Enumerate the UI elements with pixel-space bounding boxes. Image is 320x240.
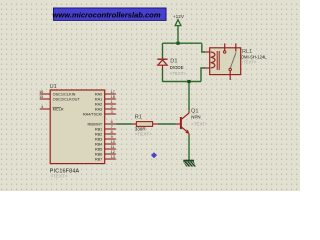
svg-text:11: 11 <box>111 145 115 149</box>
svg-text:MCLR: MCLR <box>53 107 64 111</box>
svg-text:Q1: Q1 <box>191 108 198 114</box>
svg-text:RA1: RA1 <box>95 97 102 101</box>
svg-text:<TEXT>: <TEXT> <box>241 60 257 65</box>
background grid <box>0 0 300 191</box>
svg-text:U1: U1 <box>50 84 57 90</box>
svg-text:8: 8 <box>111 130 113 134</box>
svg-text:RB0/INT: RB0/INT <box>88 122 103 126</box>
svg-text:RB6: RB6 <box>95 152 102 156</box>
pin 11 RB5 <box>95 145 116 152</box>
svg-text:RB4: RB4 <box>95 142 103 146</box>
pin 10 RB4 <box>95 140 116 147</box>
pin 8 RB2 <box>95 130 116 137</box>
svg-text:R1: R1 <box>135 114 142 120</box>
wire to relay coil top <box>202 43 205 52</box>
pin 7 RB1 <box>95 125 116 132</box>
bottom wire diode anode to relay branch <box>163 81 202 83</box>
svg-text:18: 18 <box>111 95 115 99</box>
pin 17 RA0 <box>95 90 116 97</box>
svg-text:RB7: RB7 <box>95 157 102 161</box>
transistor Q1 NPN <box>176 108 209 136</box>
svg-text:RB5: RB5 <box>95 147 102 151</box>
diode D1 <box>157 58 186 76</box>
svg-text:+12V: +12V <box>173 14 185 19</box>
svg-text:13: 13 <box>111 155 115 159</box>
title banner <box>52 8 166 20</box>
wire diode cathode up <box>162 43 164 59</box>
wire Q1 collector up to node <box>188 82 190 111</box>
pin 6 RB0/INT <box>88 120 116 127</box>
pin 13 RB7 <box>95 155 116 162</box>
svg-text:12: 12 <box>111 150 115 154</box>
svg-text:3: 3 <box>111 110 113 114</box>
relay RL1 OMI-SH-124L <box>205 43 268 80</box>
svg-text:<TEXT>: <TEXT> <box>135 131 152 136</box>
svg-text:2: 2 <box>111 105 113 109</box>
svg-text:DIODE: DIODE <box>170 65 184 70</box>
ground <box>183 161 196 167</box>
pin 3 RA4/T0CKI <box>83 110 116 117</box>
wire diode anode vertical <box>162 69 164 82</box>
svg-text:4: 4 <box>41 105 43 109</box>
pin 9 RB3 <box>95 135 116 142</box>
svg-text:NPN: NPN <box>191 115 200 120</box>
svg-text:RB3: RB3 <box>95 137 102 141</box>
svg-text:<TEXT>: <TEXT> <box>191 121 208 126</box>
svg-text:<TEXT>: <TEXT> <box>51 174 68 179</box>
wire R1 to Q1 base <box>158 123 176 125</box>
svg-text:RA3: RA3 <box>95 107 102 111</box>
svg-text:RA4/T0CKI: RA4/T0CKI <box>83 112 102 116</box>
pin 15 OSC2/CLKOUT <box>39 95 80 102</box>
pin 16 OSC1/CLKIN <box>39 90 76 97</box>
pin 4 MCLR <box>40 105 64 112</box>
svg-text:RB2: RB2 <box>95 132 102 136</box>
chip U1 PIC16F84A <box>50 84 105 179</box>
svg-text:OSC2/CLKOUT: OSC2/CLKOUT <box>53 97 81 101</box>
resistor R1 330R <box>132 114 158 136</box>
pin 18 RA1 <box>95 95 116 102</box>
svg-text:10: 10 <box>111 140 115 144</box>
power +12V <box>173 14 185 43</box>
pin 1 RA2 <box>95 100 116 107</box>
wire Q1 emitter down to ground <box>188 136 190 161</box>
svg-text:1: 1 <box>111 100 113 104</box>
svg-text:17: 17 <box>111 90 115 94</box>
node junction at collector <box>187 80 190 83</box>
pin 12 RB6 <box>95 150 116 157</box>
svg-text:16: 16 <box>39 90 43 94</box>
svg-text:9: 9 <box>111 135 113 139</box>
svg-text:D1: D1 <box>170 58 177 64</box>
node junction at +12V <box>176 42 179 45</box>
svg-text:7: 7 <box>111 125 113 129</box>
top wire +12V rail <box>163 42 202 44</box>
origin marker <box>151 152 157 158</box>
pin 2 RA3 <box>95 105 116 112</box>
svg-text:RA2: RA2 <box>95 102 102 106</box>
svg-text:www.microcontrollerslab.com: www.microcontrollerslab.com <box>52 10 160 19</box>
svg-text:15: 15 <box>39 95 43 99</box>
svg-text:OSC1/CLKIN: OSC1/CLKIN <box>53 92 76 96</box>
wire RB0 to R1 <box>116 123 132 125</box>
svg-text:6: 6 <box>111 120 113 124</box>
svg-text:RA0: RA0 <box>95 92 102 96</box>
svg-text:<TEXT>: <TEXT> <box>170 71 187 76</box>
svg-text:RB1: RB1 <box>95 127 102 131</box>
wire relay coil bottom to node <box>201 68 205 82</box>
